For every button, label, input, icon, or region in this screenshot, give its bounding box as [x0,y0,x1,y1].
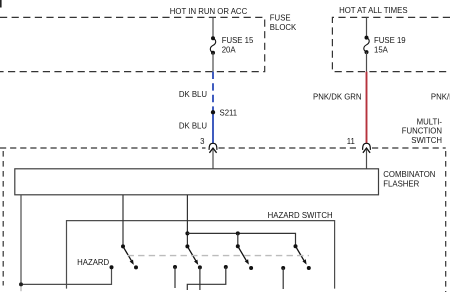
svg-text:HOT AT ALL TIMES: HOT AT ALL TIMES [339,6,407,15]
svg-text:HOT IN RUN OR ACC: HOT IN RUN OR ACC [170,7,248,16]
connector arrow pin 11 [363,148,370,153]
svg-text:11: 11 [347,137,355,146]
junction dot [236,231,240,235]
svg-text:HAZARD: HAZARD [77,258,109,267]
svg-text:15A: 15A [374,46,389,55]
svg-text:DK BLU: DK BLU [179,90,208,99]
wire DK BLU solid segment [212,114,214,143]
svg-text:PNK/D: PNK/D [431,93,450,102]
linkage dashed line [128,255,310,257]
junction dot [185,231,189,235]
contact dot hazard feed [110,265,114,269]
wire pin 11 to flasher [366,150,368,169]
svg-text:S211: S211 [220,109,238,118]
wire stub [174,267,176,288]
wire branch to SW3/SW4 [187,233,295,246]
svg-text:BLOCK: BLOCK [270,23,297,32]
switch SW4 [294,244,311,270]
wire from fuse block top to fuse F19 [366,17,368,37]
contact with stub (left of SW2) [173,265,177,269]
hazard switch box [67,221,335,289]
border tick top-left [0,0,2,8]
fuse F15 symbol [210,36,215,55]
fuse block (left dashed box) [0,17,265,71]
wire L [187,267,226,290]
wire flasher to switch SW2 and branch [186,195,188,247]
svg-text:FUSE: FUSE [270,14,291,23]
junction dot at corner [19,282,23,286]
switch SW3 [236,244,253,270]
wire stub [282,268,284,289]
switch SW1 [121,244,138,269]
wire junction to SW3 [237,233,239,246]
svg-text:SWITCH: SWITCH [411,136,442,145]
svg-text:FUSE 19: FUSE 19 [374,36,406,45]
svg-text:COMBINATON: COMBINATON [383,170,435,179]
connector arc pin 11 [363,143,371,150]
wire pin 3 to flasher [212,150,214,169]
svg-text:FLASHER: FLASHER [383,179,419,188]
fuse F19 symbol [364,36,369,55]
wire from fuse block top to fuse F15 [212,17,214,38]
svg-text:MULTI-: MULTI- [417,117,443,126]
wire fuse F19 to fuse block bottom [366,52,368,72]
svg-text:20A: 20A [222,46,237,55]
connector arc pin 3 [209,143,217,150]
switch SW2 [185,244,202,269]
contact with L wire (right of SW2) [224,265,228,269]
svg-text:HAZARD SWITCH: HAZARD SWITCH [268,211,333,220]
wire stub below SW2 contact [199,267,201,290]
splice S211 [211,110,215,114]
svg-text:PNK/DK GRN: PNK/DK GRN [313,93,362,102]
wire PNK/DK GRN [366,72,368,144]
combination flasher box [15,169,379,195]
multi-function switch dashed boundary [0,148,446,292]
fuse block (right dashed box) [332,17,450,71]
contact with stub (between SW3 and SW4) [281,266,285,270]
svg-text:3: 3 [200,137,204,146]
svg-text:DK BLU: DK BLU [179,121,208,130]
connector arrow pin 3 [209,148,216,153]
svg-text:FUNCTION: FUNCTION [402,127,442,136]
svg-text:FUSE 15: FUSE 15 [222,36,254,45]
wire faint stub below corner [20,286,22,291]
wire fuse F15 to fuse block bottom [212,53,214,72]
wire flasher to hazard feed contact [21,195,112,285]
wire flasher to switch SW1 [122,195,124,247]
wire DK BLU dashed segment [212,72,214,111]
